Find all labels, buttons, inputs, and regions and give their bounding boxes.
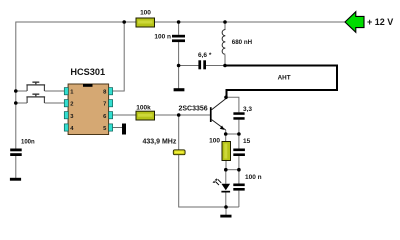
- capacitor C6 100n left: [10, 139, 35, 156]
- node C1/C2 junction: [177, 64, 181, 68]
- wire LED top lead: [225, 170, 227, 184]
- svg-text:HCS301: HCS301: [70, 67, 105, 77]
- wire pin8 to top rail: [113, 22, 125, 91]
- ground bottom center: [220, 215, 231, 218]
- antenna loop AHT: [225, 66, 337, 98]
- svg-text:2: 2: [70, 102, 73, 108]
- node top rail C1 junction: [177, 20, 181, 24]
- pin 8: [103, 88, 112, 96]
- wire switch S1 right lead: [45, 90, 65, 92]
- wire pin5 to ground: [113, 127, 123, 129]
- wire C5 bottom lead: [238, 191, 240, 207]
- resistor R3 100 vertical: [209, 138, 230, 161]
- svg-text:100n: 100n: [21, 139, 35, 145]
- capacitor C5 100n bottom: [233, 174, 261, 191]
- capacitor C2 6,6: [198, 52, 212, 69]
- wire emitter to R3: [225, 134, 227, 142]
- ground pin5 (rotated): [122, 124, 126, 135]
- node base/resonator junction: [177, 113, 181, 117]
- svg-text:15: 15: [243, 138, 251, 145]
- wire switch S1 left lead: [16, 90, 27, 92]
- svg-text:433,9 MHz: 433,9 MHz: [143, 139, 177, 146]
- svg-text:2SC3356: 2SC3356: [179, 106, 208, 113]
- wire base node down to resonator: [178, 115, 180, 150]
- ground under C1 column: [174, 88, 185, 91]
- pin 4: [64, 124, 74, 132]
- +12V supply arrow: [345, 12, 393, 33]
- pin 6: [103, 112, 112, 120]
- node antenna/inductor junction: [223, 64, 227, 68]
- pin 7: [103, 100, 112, 108]
- node switch S1 tap: [14, 89, 18, 93]
- inductor L1 680nH: [222, 30, 252, 55]
- svg-text:680 nH: 680 nH: [232, 39, 253, 46]
- pin 5: [103, 124, 112, 132]
- wire emitter down: [225, 130, 227, 134]
- wire R3 to junction row: [225, 160, 227, 170]
- resonator X1 433,9 MHz: [143, 139, 186, 155]
- wire emitter row link: [226, 133, 239, 135]
- IC U1 HCS301 body: [68, 67, 109, 135]
- transistor Q1 2SC3356: [179, 99, 226, 130]
- wire inductor top lead: [224, 22, 226, 30]
- svg-text:6,6 *: 6,6 *: [198, 52, 212, 59]
- wire top rail right: [155, 21, 346, 23]
- wire junction row link: [226, 169, 239, 171]
- node C4/C5 junction: [237, 168, 241, 172]
- node top rail pin8 junction: [122, 20, 126, 24]
- wire node to C2 left: [179, 65, 199, 67]
- svg-text:7: 7: [103, 102, 106, 108]
- node R3/LED junction: [224, 168, 228, 172]
- wire top cap column upper: [178, 22, 180, 35]
- wire resonator to bottom rail: [179, 155, 239, 207]
- node switch S2 tap: [14, 101, 18, 105]
- wire C5 top lead: [238, 170, 240, 184]
- capacitor C4 15: [233, 138, 250, 156]
- node top rail inductor junction: [223, 20, 227, 24]
- LED D1: [213, 178, 231, 192]
- wire C4 bottom lead: [238, 156, 240, 170]
- resistor R2 100k: [136, 105, 155, 121]
- switch S1: [26, 82, 45, 92]
- wire C4 top lead: [238, 134, 240, 149]
- wire top rail left: [16, 21, 136, 23]
- svg-text:100 n: 100 n: [245, 174, 262, 181]
- node bottom ground junction: [224, 205, 228, 209]
- node emitter junction: [224, 132, 228, 136]
- capacitor C1 100n top: [154, 34, 185, 43]
- svg-text:100: 100: [140, 10, 151, 17]
- node antenna/collector junction: [224, 96, 228, 100]
- wire left cap to ground: [15, 156, 17, 178]
- pin 1: [64, 88, 74, 96]
- resistor R1 100 top: [136, 10, 155, 28]
- wire R2 to base node: [155, 114, 211, 116]
- svg-text:100: 100: [209, 138, 220, 145]
- svg-text:3,3: 3,3: [243, 106, 252, 113]
- switch S2: [26, 94, 45, 104]
- svg-text:100 n: 100 n: [154, 34, 171, 41]
- wire left vertical: [15, 22, 17, 149]
- wire switch S2 right lead: [45, 102, 65, 104]
- wire antenna node to collector: [225, 97, 227, 99]
- svg-text:100k: 100k: [136, 105, 151, 112]
- wire switch S2 left lead: [16, 102, 27, 104]
- svg-text:+ 12 V: + 12 V: [367, 17, 393, 27]
- wire C3 to emitter row: [238, 120, 240, 134]
- wire ground stem bottom: [225, 207, 227, 215]
- pin 2: [64, 100, 73, 108]
- capacitor C3 3,3: [233, 106, 252, 120]
- pin 3: [64, 112, 74, 120]
- wire top cap column lower: [178, 42, 180, 89]
- svg-text:AHT: AHT: [278, 75, 291, 82]
- wire antenna node to C3: [226, 97, 239, 112]
- wire pin6 to R2: [113, 114, 137, 116]
- wire inductor bottom lead: [224, 55, 226, 65]
- ground left bottom: [10, 178, 21, 181]
- wire LED bottom lead: [225, 192, 227, 207]
- wire C2 right to antenna node: [206, 65, 225, 67]
- node C3/C4 junction: [237, 132, 241, 136]
